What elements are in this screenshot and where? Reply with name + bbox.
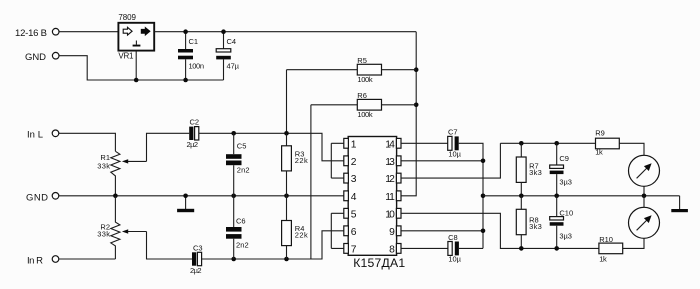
- svg-text:C6: C6: [236, 216, 246, 225]
- pin 6: [344, 226, 349, 236]
- capacitor C3 polarized: [192, 252, 196, 265]
- svg-text:VR1: VR1: [118, 52, 134, 61]
- svg-text:100n: 100n: [189, 61, 205, 70]
- pin 11: [396, 191, 401, 201]
- pin 8: [396, 244, 401, 254]
- R1 wiper arrow: [122, 159, 128, 163]
- wire pin 8 to C8: [401, 247, 448, 249]
- svg-text:11: 11: [385, 192, 395, 203]
- svg-text:47µ: 47µ: [227, 61, 240, 70]
- svg-text:10µ: 10µ: [448, 255, 461, 264]
- junction R5 right: [414, 67, 419, 72]
- svg-text:10: 10: [385, 209, 395, 220]
- wire R1 wiper to C2: [147, 133, 190, 161]
- potentiometer R2 33k: [111, 196, 120, 259]
- terminal GND power: [52, 52, 59, 59]
- svg-text:22k: 22k: [295, 231, 308, 240]
- svg-text:100k: 100k: [357, 75, 372, 84]
- capacitor C6: [233, 196, 235, 227]
- svg-text:1k: 1k: [599, 254, 607, 263]
- regulator VR1 7809: [118, 23, 154, 51]
- bracket pins 1-3: [331, 143, 344, 178]
- junction C6 bottom: [231, 257, 236, 262]
- svg-text:1: 1: [351, 139, 357, 150]
- pin 2: [344, 156, 349, 166]
- svg-text:12: 12: [385, 174, 395, 185]
- terminal 12-16 V: [52, 28, 59, 35]
- svg-text:10µ: 10µ: [448, 150, 461, 159]
- svg-text:GND: GND: [26, 192, 48, 203]
- wire 12-16V to regulator: [59, 31, 118, 33]
- pin 14: [396, 138, 401, 148]
- svg-text:In L: In L: [27, 129, 43, 140]
- wire In R to R2 bottom: [59, 258, 116, 260]
- pin 5: [344, 208, 349, 218]
- wire C7 to ground chain: [459, 143, 483, 248]
- terminal In R: [52, 256, 59, 263]
- wire pin 10 to R10 line: [401, 213, 599, 248]
- wire rail to meter2: [643, 196, 645, 208]
- pin 13: [396, 156, 401, 166]
- svg-text:C7: C7: [448, 128, 458, 137]
- VR1 output arrow (solid): [141, 28, 150, 36]
- svg-text:C5: C5: [237, 142, 247, 151]
- svg-text:7809: 7809: [118, 13, 136, 22]
- resistor R3: [286, 133, 288, 146]
- wire pin 14 to C7: [401, 142, 448, 144]
- pin 10: [396, 208, 401, 218]
- svg-text:R9: R9: [595, 129, 605, 138]
- ground symbol left: [185, 196, 187, 209]
- pin 1: [344, 138, 349, 148]
- svg-text:33k: 33k: [97, 229, 110, 238]
- svg-text:4: 4: [351, 192, 357, 203]
- resistor R9: [596, 138, 620, 149]
- svg-text:5: 5: [351, 209, 357, 220]
- junction R3/R5 top: [284, 131, 289, 136]
- wire C3 to pin 6 riser: [202, 231, 332, 259]
- wire pin 13: [401, 160, 483, 162]
- pin 7: [344, 244, 349, 254]
- svg-text:3µ3: 3µ3: [559, 177, 572, 186]
- wire C8 to ground chain: [459, 247, 483, 249]
- pin 12: [396, 173, 401, 183]
- capacitor C8 polarized: [448, 242, 452, 256]
- wire C2 to pin 2 riser: [199, 133, 331, 161]
- junction R1/R2 on rail: [113, 194, 118, 199]
- svg-text:GND: GND: [25, 52, 46, 63]
- svg-text:2: 2: [351, 157, 357, 168]
- junction C5/C6 on rail: [231, 194, 236, 199]
- junction R3/R4 on rail: [284, 194, 289, 199]
- ground chain junction / right rail: [481, 194, 486, 199]
- svg-text:1k: 1k: [595, 147, 603, 156]
- ground symbol right: [679, 196, 681, 209]
- svg-text:C1: C1: [189, 37, 199, 46]
- svg-text:9: 9: [389, 227, 395, 238]
- svg-text:C3: C3: [193, 244, 203, 253]
- capacitor C4 polarized: [223, 32, 225, 49]
- junction R6 right: [414, 103, 419, 108]
- capacitor C5: [233, 133, 235, 154]
- wire R9 to meter 1: [619, 143, 644, 155]
- capacitor C10 polarized: [556, 196, 558, 217]
- wire meter1 to rail: [643, 186, 645, 196]
- junction VR1 gnd / bottom rail: [134, 78, 139, 83]
- svg-text:R5: R5: [357, 56, 367, 65]
- resistor R5: [287, 69, 358, 71]
- terminal GND mid: [52, 193, 59, 200]
- capacitor C1: [185, 32, 187, 49]
- resistor R6: [311, 104, 357, 106]
- svg-text:3: 3: [351, 174, 357, 185]
- VR1 input arrow (outline): [123, 27, 132, 35]
- left output line: [500, 142, 595, 144]
- svg-text:22k: 22k: [295, 156, 308, 165]
- pin 9: [396, 226, 401, 236]
- svg-text:8: 8: [389, 245, 395, 256]
- wire GND input to bottom rail: [59, 56, 224, 80]
- svg-text:12-16 В: 12-16 В: [15, 28, 47, 39]
- junction C4 top: [221, 29, 226, 34]
- svg-text:33k: 33k: [97, 162, 110, 171]
- capacitor C9 polarized: [556, 143, 558, 165]
- R2 wiper arrow: [122, 229, 128, 233]
- bracket pins 5-7: [331, 213, 344, 248]
- svg-text:3µ3: 3µ3: [559, 232, 572, 241]
- wire R2 wiper to C3: [147, 232, 193, 260]
- svg-text:C10: C10: [559, 208, 573, 217]
- svg-text:3k3: 3k3: [529, 222, 542, 231]
- svg-text:2µ2: 2µ2: [187, 140, 199, 149]
- junction C5 top: [231, 131, 236, 136]
- svg-text:100k: 100k: [357, 110, 372, 119]
- svg-text:6: 6: [351, 227, 357, 238]
- GND rail to pin 4: [59, 195, 344, 197]
- pin 4: [344, 191, 349, 201]
- svg-text:2n2: 2n2: [236, 240, 249, 249]
- terminal In L: [52, 130, 59, 137]
- resistor R7: [520, 143, 522, 157]
- svg-text:In R: In R: [27, 255, 43, 266]
- svg-text:C4: C4: [227, 37, 237, 46]
- wire In L to R1 top: [59, 133, 116, 151]
- wire meter2 to R10: [623, 238, 644, 248]
- junction C1 bottom: [183, 78, 188, 83]
- svg-text:2n2: 2n2: [237, 165, 250, 174]
- svg-text:2µ2: 2µ2: [190, 266, 202, 275]
- meter M2: [629, 207, 660, 238]
- VR1 internal ground symbol: [135, 41, 137, 45]
- +9V riser to pin 11: [401, 32, 416, 196]
- pin 3: [344, 173, 349, 183]
- resistor R8: [520, 196, 522, 210]
- svg-text:C2: C2: [190, 118, 200, 127]
- junction R4 bottom: [284, 257, 289, 262]
- wire pin 9: [401, 230, 483, 232]
- capacitor C2 polarized: [189, 127, 193, 140]
- junction C1 top: [183, 29, 188, 34]
- resistor R4: [286, 196, 288, 221]
- svg-text:7: 7: [351, 245, 357, 256]
- svg-text:C9: C9: [559, 154, 569, 163]
- resistor R10: [599, 243, 623, 254]
- svg-text:К157ДА1: К157ДА1: [353, 256, 405, 270]
- wire R6 riser to In R line: [310, 105, 312, 259]
- svg-text:14: 14: [385, 139, 395, 150]
- wire R5 riser to In L line: [286, 70, 288, 134]
- potentiometer R1 33k: [111, 151, 120, 196]
- junction R7 top: [519, 141, 524, 146]
- svg-text:R10: R10: [599, 235, 613, 244]
- wire regulator output top rail: [154, 31, 416, 33]
- wire pin 12 riser to output line: [401, 143, 500, 178]
- svg-text:13: 13: [385, 157, 395, 168]
- meter M1: [629, 155, 660, 186]
- svg-text:C8: C8: [448, 233, 458, 242]
- svg-text:3k3: 3k3: [529, 168, 542, 177]
- VR1 ground lead: [135, 51, 137, 80]
- op-amp IC U1 K157DA1 body: [348, 137, 396, 256]
- junction C9 top: [554, 141, 559, 146]
- svg-text:R6: R6: [357, 91, 367, 100]
- capacitor C7 polarized: [448, 136, 452, 150]
